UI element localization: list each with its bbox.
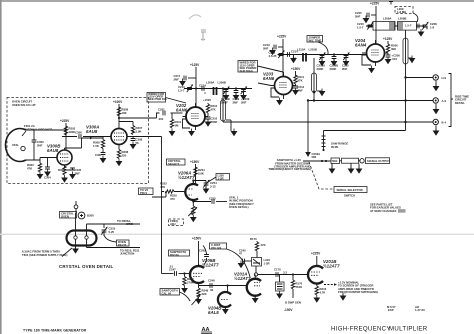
node +150V V205B (192, 237, 202, 267)
svg-text:+100V: +100V (113, 100, 123, 104)
thermometer circle (78, 212, 94, 219)
tube V302 (183, 103, 209, 130)
svg-text:+225V: +225V (311, 252, 321, 256)
node -150V (284, 301, 301, 313)
svg-text:H-9: H-9 (442, 76, 447, 80)
trimmer C318 (269, 50, 285, 58)
svg-text:DIV 64: DIV 64 (170, 253, 179, 257)
node +225V (277, 35, 287, 77)
cathode wire right (192, 200, 211, 202)
ground under V302 (188, 129, 195, 137)
wire bus y77 (404, 76, 433, 78)
wire coax to bus (313, 92, 315, 101)
wire out of box y118 (149, 113, 160, 118)
svg-text:2NF: 2NF (342, 67, 348, 71)
svg-text:6AU8: 6AU8 (86, 129, 98, 134)
ground under oven (72, 246, 79, 254)
terminal J3 (433, 119, 446, 124)
svg-text:+150V: +150V (190, 160, 200, 164)
half tube V202B diode (218, 292, 231, 307)
svg-text:470: 470 (170, 197, 175, 201)
svg-text:B-4: B-4 (442, 121, 447, 125)
resistor R206 (386, 43, 398, 53)
svg-text:+225V: +225V (277, 35, 287, 39)
node +125V (383, 37, 393, 44)
svg-text:+150V: +150V (203, 98, 211, 102)
capacitor C319 (263, 43, 283, 55)
pot under tube (188, 202, 197, 223)
oven bottom wire (87, 246, 141, 256)
svg-text:.01: .01 (169, 264, 173, 268)
svg-text:CRYSTAL OVEN DETAIL: CRYSTAL OVEN DETAIL (59, 264, 113, 269)
svg-text:6AL5: 6AL5 (208, 310, 219, 315)
grid components R303 C304 (27, 158, 53, 180)
svg-text:+125V: +125V (190, 63, 200, 67)
svg-text:2NF: 2NF (233, 100, 239, 104)
svg-text:+225V: +225V (60, 119, 70, 123)
svg-text:OVEN: OVEN (61, 215, 69, 219)
svg-text:10K: 10K (122, 111, 127, 115)
svg-text:33: 33 (210, 288, 214, 292)
svg-text:561K: 561K (296, 285, 303, 289)
date marks (387, 305, 425, 312)
svg-text:TIME/FREQUENCY SWITCHING): TIME/FREQUENCY SWITCHING) (268, 167, 311, 171)
left feed box (151, 196, 153, 198)
wire curve from div box (199, 246, 209, 265)
svg-text:1-8 MH: 1-8 MH (397, 10, 406, 14)
svg-text:2NF: 2NF (75, 171, 81, 175)
half tube V206A (184, 180, 198, 202)
tube label V300A (86, 125, 99, 135)
svg-text:47K: 47K (261, 243, 266, 247)
capacitor C205 (355, 11, 376, 23)
svg-text:220: 220 (122, 153, 127, 157)
svg-text:5.6K: 5.6K (198, 171, 204, 175)
tube label V201A (234, 272, 251, 282)
svg-text:2NF: 2NF (37, 143, 43, 147)
cap C245 left (238, 249, 252, 269)
capacitor C206 (385, 53, 401, 64)
svg-text:SWITCH: SWITCH (344, 194, 355, 198)
node +100V (113, 100, 123, 128)
cathode loop wire V203 (271, 88, 279, 97)
bracket right (449, 74, 470, 127)
svg-text:5-25: 5-25 (109, 230, 115, 234)
svg-text:R170: R170 (250, 237, 257, 241)
swp cal dashed label (160, 288, 190, 301)
tube label V202B (208, 306, 222, 316)
faint pencil arc top middle (189, 15, 201, 19)
svg-text:22K: 22K (202, 292, 207, 296)
half tube V201B (308, 256, 323, 286)
half tube V205B (190, 264, 204, 286)
svg-text:A-9: A-9 (442, 99, 447, 103)
svg-text:C246: C246 (208, 279, 215, 283)
svg-text:20NF: 20NF (330, 67, 337, 71)
ground under note (340, 293, 347, 301)
svg-text:HIGH-FREQUENCY: HIGH-FREQUENCY (331, 326, 391, 333)
tick mark above L209 box (389, 2, 393, 5)
svg-text:+125V: +125V (383, 37, 393, 41)
svg-text:2NF: 2NF (298, 88, 304, 92)
tube label V204 (355, 38, 367, 48)
svg-text:L210A: L210A (297, 48, 305, 52)
svg-text:.001: .001 (158, 117, 164, 121)
wire out of box y137 (127, 137, 162, 181)
terminal circle output (359, 159, 365, 163)
ground under V203 (276, 98, 283, 106)
svg-text:W/C TIME: W/C TIME (309, 38, 322, 42)
capacitor C304 (44, 158, 51, 180)
svg-text:2NF: 2NF (355, 14, 361, 18)
trimmer C254 (203, 180, 218, 194)
wire bus y122 (223, 121, 433, 123)
svg-text:+225V: +225V (370, 2, 380, 6)
wire bus y129 (324, 122, 406, 131)
capacitor C305 (65, 168, 82, 179)
pot box R171 (276, 275, 285, 299)
box to left (0, 0, 1, 1)
crystal oven arc (5, 129, 26, 162)
svg-text:XTAL: XTAL (12, 143, 19, 147)
svg-text:½12AT7: ½12AT7 (323, 264, 340, 269)
svg-text:56: 56 (136, 141, 140, 145)
left vertical bus (161, 180, 163, 274)
curved wire to V201A grid (227, 249, 251, 277)
coax shield right of V204 (403, 30, 415, 78)
svg-text:B SWP GEN: B SWP GEN (285, 301, 301, 305)
cathode loop wire V302 (183, 119, 191, 128)
svg-text:+150V: +150V (291, 67, 301, 71)
svg-text:39K: 39K (391, 47, 396, 51)
capacitor C307 (95, 149, 106, 164)
arrow under J1 (433, 81, 440, 91)
AA mark (201, 327, 212, 333)
capacitor C311 (205, 117, 218, 127)
svg-text:DETAIL: DETAIL (455, 101, 465, 105)
oven pins (74, 231, 88, 246)
resistor R301 (169, 113, 182, 136)
horizontal crease line (0, 234, 474, 235)
junction V202B (226, 284, 228, 293)
coax shield right of V302 (221, 87, 226, 122)
svg-text:6AN4: 6AN4 (355, 43, 367, 48)
parts note text (370, 203, 406, 213)
svg-text:20NF: 20NF (317, 67, 324, 71)
svg-text:EXP: EXP (388, 308, 394, 312)
svg-text:.001: .001 (392, 57, 398, 61)
ground stub (226, 120, 237, 136)
svg-text:3-12: 3-12 (210, 184, 216, 188)
label box L310 (208, 173, 230, 182)
inductor L309 bars (206, 81, 226, 96)
delay line box (340, 158, 359, 163)
faint pencil mark (201, 30, 206, 40)
grounds under signal row (329, 164, 336, 174)
svg-text:50Ω: 50Ω (332, 159, 338, 163)
svg-text:C201: C201 (158, 108, 165, 112)
oven outline (67, 231, 97, 246)
svg-text:1-2R: 1-2R (264, 261, 270, 265)
svg-text:6AN6: 6AN6 (176, 108, 188, 113)
node +150V (291, 67, 301, 76)
svg-text:GRID: GRID (126, 222, 133, 226)
svg-text:1.5-7: 1.5-7 (405, 24, 412, 28)
resistor R302 (64, 126, 75, 135)
tube V203 (271, 72, 296, 99)
plate resistor R307 (119, 122, 143, 137)
svg-text:-150V: -150V (284, 308, 293, 312)
half tube V201A (247, 275, 261, 299)
svg-text:47K: 47K (298, 78, 303, 82)
output dashes and note (324, 281, 378, 295)
arrow under J2 (433, 104, 440, 114)
svg-text:SIGNAL OUTPUT: SIGNAL OUTPUT (367, 159, 390, 163)
svg-text:FREQ/COUNTER SWITCHING): FREQ/COUNTER SWITCHING) (338, 290, 378, 294)
resistor R211 (294, 75, 305, 84)
svg-text:1.5-7: 1.5-7 (357, 25, 364, 29)
wire oven top (26, 130, 66, 160)
svg-text:C255: C255 (209, 197, 216, 201)
capacitor C314 (288, 50, 299, 61)
svg-text:THERMAL BREAKER: THERMAL BREAKER (24, 127, 52, 131)
node +150V (190, 160, 200, 184)
svg-text:47K: 47K (160, 185, 165, 189)
ground under V201A (252, 296, 259, 304)
svg-text:1-2R: 1-2R (218, 177, 224, 181)
SERIAL SELECTOR box (334, 187, 367, 198)
vertical from bus y100 (305, 99, 320, 159)
svg-text:SELECT: SELECT (168, 162, 179, 166)
chain wire V302 (184, 87, 252, 89)
wire chain to tube plate (366, 26, 424, 44)
svg-text:½12AT7: ½12AT7 (178, 175, 195, 180)
cathode resistor R216 (313, 286, 326, 303)
junction circle on bus (254, 273, 308, 276)
trimmer C310 (221, 86, 230, 104)
svg-text:C304: C304 (44, 176, 51, 180)
crystal oven detail title (59, 264, 113, 269)
node +150V small (203, 86, 250, 104)
svg-text:+150V: +150V (192, 237, 202, 241)
inductor L209B shield box (398, 17, 417, 31)
trimmer C210 (357, 22, 374, 30)
svg-text:L209A: L209A (206, 81, 214, 85)
resistor R170b (291, 280, 302, 298)
resistor R309 (93, 137, 105, 149)
tube label V201B (323, 259, 340, 269)
crystal select box (167, 159, 186, 166)
grid cap C247 (162, 264, 191, 276)
svg-text:ADJ: ADJ (170, 222, 176, 226)
capacitor C308 plate (130, 137, 143, 150)
svg-text:SERIAL SELECTOR: SERIAL SELECTOR (337, 188, 363, 192)
resistor R306 (117, 107, 128, 116)
resistor R246 top (250, 237, 266, 251)
tube label V205B (202, 258, 219, 268)
svg-text:6AN6: 6AN6 (263, 76, 275, 81)
capacitor C315 (330, 55, 339, 71)
svg-text:1-27-60: 1-27-60 (415, 308, 425, 312)
svg-text:CAL 64: CAL 64 (162, 292, 172, 296)
svg-text:L209B: L209B (218, 81, 226, 85)
switch contact column (322, 131, 326, 152)
inductor L209A shield box (373, 17, 395, 31)
svg-text:PIN 9: PIN 9 (140, 191, 147, 195)
ground at chain end (418, 26, 427, 37)
grid resistor R253 (160, 182, 184, 194)
capacitor C314b (199, 84, 206, 96)
svg-text:220 124: 220 124 (211, 246, 222, 250)
svg-text:IN ML: IN ML (331, 145, 339, 149)
ground under V202B (222, 307, 229, 315)
wiring note box left (147, 92, 186, 103)
svg-text:1-8: 1-8 (430, 25, 434, 29)
svg-text:4.7K: 4.7K (320, 290, 326, 294)
trimmer C313b (178, 84, 193, 92)
grid components from left (152, 192, 177, 201)
svg-text:L210B: L210B (309, 48, 317, 52)
oven note text (12, 100, 36, 107)
svg-text:6AU8: 6AU8 (47, 148, 59, 153)
cap box C248 (210, 243, 227, 250)
tube V300B (53, 148, 72, 168)
power text (22, 248, 72, 257)
inductor L310A bars (297, 48, 317, 62)
freq adj dashed label (169, 219, 184, 226)
svg-text:1.5K: 1.5K (93, 144, 99, 148)
cathode resistor R249 pot (192, 286, 209, 306)
div label box (169, 250, 190, 257)
capacitor C308 (233, 89, 240, 105)
wire plate junction right (118, 117, 149, 119)
crystal box component (252, 251, 271, 273)
type text (23, 328, 87, 332)
svg-text:47: 47 (239, 252, 243, 256)
tube V300A (107, 128, 131, 148)
ground under output jack (356, 164, 363, 174)
wire chain to tube plate (192, 177, 206, 184)
dashed link serial selector (309, 162, 333, 189)
capacitor C212 (292, 84, 305, 95)
svg-text:580: 580 (312, 155, 317, 159)
svg-text:L209B: L209B (398, 17, 406, 21)
svg-text:½12AT7: ½12AT7 (234, 276, 251, 281)
tube label V203 (263, 72, 275, 82)
svg-text:2NF: 2NF (174, 77, 180, 81)
node +225V V201B (311, 252, 321, 256)
thermal breaker symbol (74, 201, 78, 213)
svg-text:AT SER# CHANGES: AT SER# CHANGES (370, 209, 397, 213)
svg-text:SUP DIAG: SUP DIAG (240, 69, 253, 73)
main title (331, 326, 428, 333)
text from master (268, 158, 311, 171)
svg-text:2NF: 2NF (241, 100, 247, 104)
svg-text:47K: 47K (211, 107, 216, 111)
terminal J1 (433, 75, 446, 80)
ground under C219 chain start (290, 55, 297, 64)
wire from wiring box to tube grid (258, 66, 284, 86)
svg-text:B300: B300 (87, 214, 94, 218)
crystal oven label box (60, 211, 77, 218)
dashed label L209 (395, 7, 418, 23)
resistor R254 (194, 167, 205, 176)
coax shield right of V203 (312, 58, 317, 93)
cathode resistor R305 (58, 166, 68, 183)
svg-text:47K: 47K (27, 166, 32, 170)
svg-text:L209A: L209A (383, 17, 391, 21)
cathode loop wire (362, 55, 371, 65)
node +225V top (370, 2, 380, 27)
terminal J2 (433, 98, 446, 103)
trimmer C313 (342, 52, 350, 71)
ground under V204 (368, 66, 375, 74)
svg-text:C307: C307 (95, 153, 102, 157)
svg-text:SEE PWR DIA: SEE PWR DIA (148, 97, 167, 101)
svg-text:PILOT: PILOT (118, 243, 127, 247)
arrow under J3 (433, 126, 440, 136)
tube label V300B (47, 144, 61, 154)
node +125V (190, 63, 200, 107)
signal wire y161 (303, 160, 331, 162)
capacitor C300 (32, 130, 45, 160)
svg-text:3.3: 3.3 (283, 271, 287, 275)
grid cap C306 (62, 131, 107, 139)
wire plate V300B up and right (65, 137, 104, 148)
svg-text:C306: C306 (75, 131, 82, 135)
tube label V302 (176, 103, 188, 113)
jumper note box (307, 35, 328, 54)
oven pilot label box (104, 235, 129, 247)
svg-text:TYPE 180 TIME-MARK GENERATOR: TYPE 180 TIME-MARK GENERATOR (23, 328, 87, 332)
node +225V in box (60, 119, 70, 150)
ground right of coax (317, 89, 325, 97)
svg-text:JUNCTION: JUNCTION (120, 252, 134, 256)
tube label V206A (178, 171, 195, 181)
svg-text:T601 (SEE POWER SUPPLY DIAG): T601 (SEE POWER SUPPLY DIAG) (22, 253, 67, 257)
label saw range (331, 142, 348, 149)
svg-text:20NF: 20NF (221, 100, 228, 104)
wire bus y100 (308, 99, 433, 101)
svg-text:1M: 1M (175, 123, 180, 127)
resistor R311 (206, 103, 217, 116)
svg-text:4.5-25: 4.5-25 (269, 54, 277, 58)
svg-text:C205: C205 (199, 249, 206, 253)
svg-text:USED S/N 101-UP: USED S/N 101-UP (12, 103, 36, 107)
trimmer C208 (422, 22, 437, 30)
wiring note box (left of chain) (238, 61, 258, 74)
svg-text:MULTIPLIER: MULTIPLIER (389, 326, 428, 333)
capacitor C255 (209, 197, 227, 204)
grid resistor R247 (181, 272, 194, 293)
top scan border (0, 0, 474, 2)
aux label box below oven box (139, 188, 154, 195)
trimmer C311 oven (101, 224, 115, 236)
svg-text:1.5-7: 1.5-7 (178, 88, 185, 92)
ground under delay line (348, 164, 355, 174)
SIGNAL OUTPUT box (366, 158, 391, 164)
junction R170 (292, 273, 294, 280)
thermal breaker label (22, 124, 52, 136)
chain wire (278, 53, 367, 55)
series cap C170 (274, 268, 287, 277)
tube V204 (362, 40, 388, 66)
svg-text:OVEN DETAIL): OVEN DETAIL) (229, 205, 249, 209)
to label top right (117, 219, 133, 226)
resistor R308 cathode (116, 148, 129, 167)
svg-text:R305: R305 (58, 168, 65, 172)
small box SIG (331, 158, 340, 164)
